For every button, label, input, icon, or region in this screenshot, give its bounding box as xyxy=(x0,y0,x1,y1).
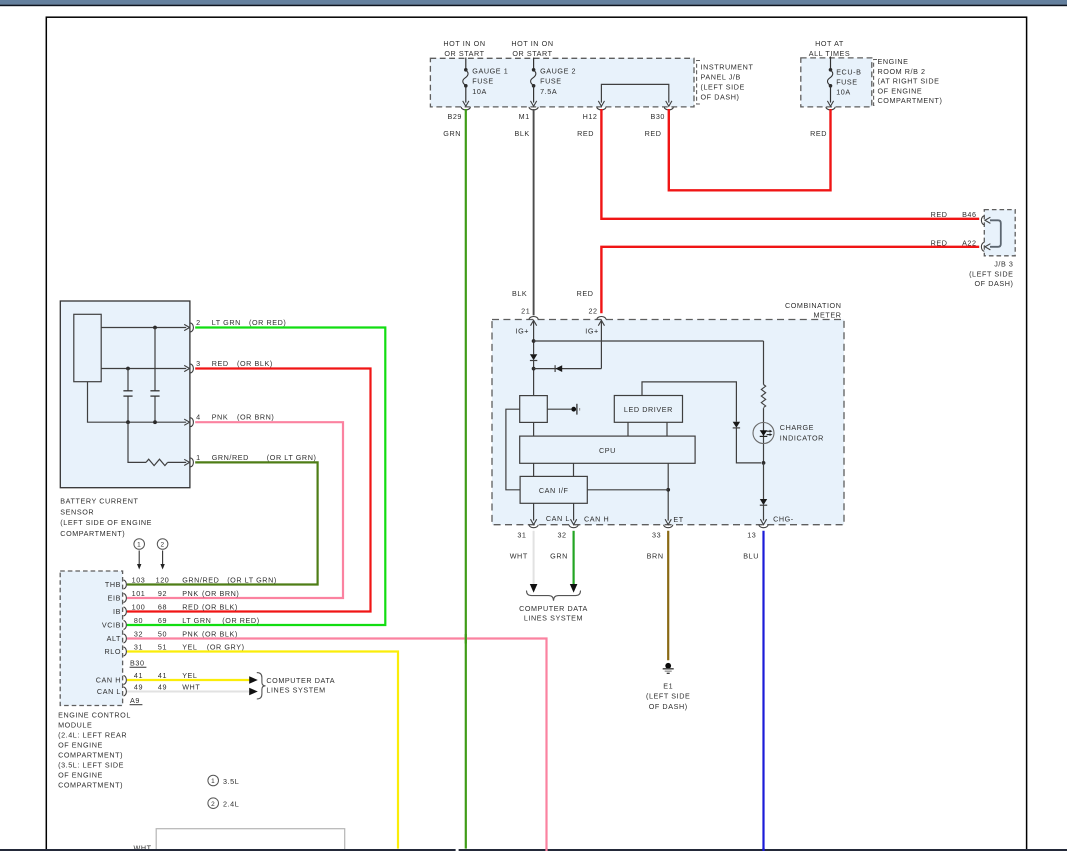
svg-text:VCIB: VCIB xyxy=(102,621,121,630)
pin 32 arrow xyxy=(571,519,577,524)
svg-text:B46: B46 xyxy=(962,210,977,219)
pin 1 arrow xyxy=(184,459,189,465)
svg-text:BLK: BLK xyxy=(514,129,529,138)
svg-text:B29: B29 xyxy=(447,112,462,121)
label BATTERY CURRENT SENSOR (LEFT SIDE OF ENGINE COMPARTMENT) xyxy=(60,497,152,538)
svg-text:OF ENGINE: OF ENGINE xyxy=(58,771,103,780)
svg-text:101: 101 xyxy=(132,589,146,598)
pin 3 arrow xyxy=(184,365,189,371)
wire CPU to CAN I/F 1 xyxy=(533,463,535,476)
svg-text:32: 32 xyxy=(134,629,143,638)
wire B29 GRN (to bottom of page) xyxy=(465,109,467,849)
wire U2 bottom to CPU xyxy=(533,422,535,436)
ECM pin RLO xyxy=(104,642,244,656)
node s1 xyxy=(153,326,157,330)
pin labels B29 M1 H12 B30 xyxy=(447,112,665,121)
label CHARGE INDICATOR xyxy=(780,423,824,442)
pin 2 arc xyxy=(191,323,194,332)
svg-text:IB: IB xyxy=(113,607,121,616)
svg-text:BLK: BLK xyxy=(512,289,527,298)
svg-text:(LEFT SIDE: (LEFT SIDE xyxy=(969,269,1013,278)
svg-text:B30: B30 xyxy=(130,658,145,667)
svg-text:41: 41 xyxy=(134,671,143,680)
junction block: ENGINE ROOM R/B 2 box xyxy=(801,58,872,107)
svg-text:ENGINE: ENGINE xyxy=(878,57,909,66)
svg-text:OR START: OR START xyxy=(512,49,552,58)
svg-text:H12: H12 xyxy=(583,112,598,121)
fuse GAUGE 1 10A xyxy=(464,68,468,72)
internal jumper H12-B30 xyxy=(601,84,668,102)
node terminal dot xyxy=(571,407,576,412)
pin 3 arc xyxy=(191,364,194,373)
wire color labels GRN BLK RED RED xyxy=(443,129,661,138)
terminal bar xyxy=(576,404,578,415)
svg-text:EIB: EIB xyxy=(108,594,121,603)
svg-text:RLO: RLO xyxy=(104,647,121,656)
wire pin22 internal down xyxy=(600,322,602,369)
node junction IG+ top xyxy=(532,339,536,343)
label COMPUTER DATA LINES SYSTEM (meter) xyxy=(519,604,588,623)
svg-text:COMPUTER DATA: COMPUTER DATA xyxy=(519,604,588,613)
svg-text:(LEFT SIDE: (LEFT SIDE xyxy=(701,83,745,92)
COMBINATION METER box xyxy=(492,320,844,525)
pin A22 arc xyxy=(981,242,984,251)
svg-text:METER: METER xyxy=(813,311,841,320)
top window bar xyxy=(0,0,1067,5)
svg-text:49: 49 xyxy=(134,682,143,691)
svg-text:GAUGE 2: GAUGE 2 xyxy=(540,66,576,75)
pin 2 arrow xyxy=(184,324,189,330)
arrow WHT to data lines xyxy=(530,584,538,593)
svg-text:ROOM R/B 2: ROOM R/B 2 xyxy=(878,67,926,76)
svg-text:(OR RED): (OR RED) xyxy=(222,616,259,625)
ECM pin VCIB xyxy=(102,616,260,630)
svg-text:(LEFT SIDE OF ENGINE: (LEFT SIDE OF ENGINE xyxy=(60,518,152,527)
svg-text:ALT: ALT xyxy=(107,634,121,643)
svg-text:OR START: OR START xyxy=(444,49,484,58)
circled 2 above ECM xyxy=(157,539,168,550)
circled 1 above ECM xyxy=(134,539,145,550)
svg-text:3.5L: 3.5L xyxy=(223,777,239,786)
svg-text:RED: RED xyxy=(212,359,229,368)
sensor element block xyxy=(74,314,101,381)
ECM pin CAN L xyxy=(97,682,200,696)
pin 1 arc xyxy=(191,458,194,467)
svg-text:2: 2 xyxy=(211,801,215,808)
wire B29 GRN over ALT crossing xyxy=(465,634,467,644)
svg-text:(2.4L: LEFT REAR: (2.4L: LEFT REAR xyxy=(58,731,127,740)
wire R1 to indicator xyxy=(763,408,765,463)
svg-text:B30: B30 xyxy=(650,112,665,121)
label J/B 3 (LEFT SIDE OF DASH) xyxy=(969,260,1013,288)
wire pin1 GRN/RED to ECM THB xyxy=(127,462,318,584)
svg-text:MODULE: MODULE xyxy=(58,721,92,730)
node s3 xyxy=(126,420,130,424)
label GAUGE 1 FUSE 10A xyxy=(472,66,508,96)
wire node to pin22 diode xyxy=(534,368,602,370)
pin 4 arc xyxy=(191,418,194,427)
ECM pin EIB xyxy=(108,589,240,603)
wire J/B3 A22 RED to meter pin 22 xyxy=(601,247,979,313)
arrow from circled 2 xyxy=(162,551,164,566)
svg-text:OF DASH): OF DASH) xyxy=(649,702,688,711)
svg-text:OF ENGINE: OF ENGINE xyxy=(58,741,103,750)
label HOT AT ALL TIMES xyxy=(809,39,851,58)
wire pin33 BRN to E1 xyxy=(667,531,669,660)
svg-text:CHARGE: CHARGE xyxy=(780,423,814,432)
svg-text:32: 32 xyxy=(557,530,566,539)
wire sensor pin2 internal xyxy=(101,327,186,329)
svg-text:1: 1 xyxy=(211,778,215,785)
svg-text:2: 2 xyxy=(196,318,201,327)
capacitor C2 xyxy=(150,390,159,392)
arrow CAN H to data lines xyxy=(249,676,258,684)
pin 21 arrow xyxy=(531,320,537,325)
svg-text:LT GRN: LT GRN xyxy=(212,318,241,327)
svg-text:WHT: WHT xyxy=(182,682,200,691)
arrow CAN L to data lines xyxy=(249,688,258,696)
svg-text:69: 69 xyxy=(158,616,167,625)
ECU-B output arrow xyxy=(827,101,833,106)
wire pin32 GRN xyxy=(572,531,574,584)
svg-text:2.4L: 2.4L xyxy=(223,800,239,809)
svg-text:J/B 3: J/B 3 xyxy=(994,260,1013,269)
legend circled 1 = 3.5L xyxy=(208,775,219,786)
svg-text:RED: RED xyxy=(931,210,948,219)
wire node to D4 xyxy=(763,463,765,499)
svg-text:GRN: GRN xyxy=(443,129,461,138)
wire LED DRIVER to CPU 2 xyxy=(666,422,668,436)
svg-text:31: 31 xyxy=(134,642,143,651)
svg-text:10A: 10A xyxy=(836,88,851,97)
svg-text:ENGINE CONTROL: ENGINE CONTROL xyxy=(58,711,131,720)
arrow GRN to data lines xyxy=(570,584,578,593)
svg-text:COMPARTMENT): COMPARTMENT) xyxy=(58,751,123,760)
wire U2 right lead xyxy=(547,408,571,410)
svg-text:13: 13 xyxy=(747,530,756,539)
wire CAN I/F to pin 32 xyxy=(573,503,575,520)
wire D3 to charge node xyxy=(736,428,761,463)
pin B30 arc xyxy=(664,107,673,110)
pin B29 arrow xyxy=(463,101,469,106)
svg-text:68: 68 xyxy=(158,602,167,611)
wire to resistor R2 xyxy=(128,422,146,462)
pin 22 arc xyxy=(597,317,606,320)
svg-text:21: 21 xyxy=(521,307,530,316)
label pin 4 PNK (OR BRN) xyxy=(196,413,274,422)
svg-text:(OR RED): (OR RED) xyxy=(249,318,286,327)
label HOT IN ON OR START (fuse GAUGE 2) xyxy=(511,39,553,58)
wire pin2 LT GRN to ECM VCIB xyxy=(127,328,385,626)
pin 4 arrow xyxy=(184,419,189,425)
svg-text:HOT IN ON: HOT IN ON xyxy=(443,39,485,48)
wire sensor pin3 internal xyxy=(101,368,186,370)
pin B46 arc xyxy=(981,216,984,225)
diode D4 down xyxy=(760,499,767,505)
svg-text:WHT: WHT xyxy=(510,551,528,560)
pin 13 arc xyxy=(759,525,768,528)
wire LED DRIVER top feed xyxy=(642,382,736,422)
svg-text:(OR GRY): (OR GRY) xyxy=(207,642,245,651)
pin numbers 31 32 33 13 xyxy=(517,530,756,539)
ECM pin CAN H xyxy=(96,671,198,685)
svg-text:COMPARTMENT): COMPARTMENT) xyxy=(60,529,125,538)
svg-text:THB: THB xyxy=(105,580,121,589)
label pin 3 RED (OR BLK) xyxy=(196,359,273,368)
bottom partial box xyxy=(156,829,345,851)
svg-text:YEL: YEL xyxy=(182,671,197,680)
pin B29 arc xyxy=(461,107,470,110)
svg-text:LINES SYSTEM: LINES SYSTEM xyxy=(266,686,325,695)
junction block: INSTRUMENT PANEL J/B box xyxy=(430,58,694,107)
wire pin3 RED to ECM IB xyxy=(127,369,371,612)
wire ECU-B fuse feed xyxy=(830,57,832,70)
svg-text:(OR BLK): (OR BLK) xyxy=(237,359,273,368)
wire fuse 1 feed xyxy=(465,58,467,70)
svg-text:GRN: GRN xyxy=(550,551,568,560)
svg-text:BRN: BRN xyxy=(647,551,664,560)
pin A22 arrow xyxy=(985,244,990,250)
ENGINE CONTROL MODULE box xyxy=(60,571,122,706)
arrow from circled 1 xyxy=(138,551,140,566)
svg-text:FUSE: FUSE xyxy=(540,77,562,86)
diode D1 down xyxy=(530,354,537,360)
svg-text:INSTRUMENT: INSTRUMENT xyxy=(701,63,754,72)
svg-text:CHG-: CHG- xyxy=(773,514,794,523)
label COMPUTER DATA LINES SYSTEM (ECM) xyxy=(266,676,335,695)
svg-text:LT GRN: LT GRN xyxy=(182,616,211,625)
svg-text:CAN H: CAN H xyxy=(584,514,609,523)
wire H12 RED to J/B3 B46 xyxy=(601,109,979,219)
pin H12 arrow xyxy=(598,101,604,106)
wire U2 left lead to CAN I/F xyxy=(506,409,520,490)
legend circled 2 = 2.4L xyxy=(208,798,219,809)
resistor R2 xyxy=(146,459,168,465)
labels RED A22 xyxy=(931,238,977,247)
resistor R1 xyxy=(761,385,765,408)
svg-text:RED: RED xyxy=(645,129,662,138)
svg-text:CAN L: CAN L xyxy=(97,687,121,696)
ECM pin IB xyxy=(113,602,238,616)
svg-text:50: 50 xyxy=(158,629,167,638)
CHARGE INDICATOR lamp circle xyxy=(753,423,774,444)
svg-text:CPU: CPU xyxy=(599,446,616,455)
labels RED B46 xyxy=(931,210,977,219)
node junction diode mix xyxy=(532,367,536,371)
fuse GAUGE 2 7.5A xyxy=(532,68,536,72)
svg-text:IG+: IG+ xyxy=(516,327,530,336)
svg-text:(AT RIGHT SIDE: (AT RIGHT SIDE xyxy=(878,77,940,86)
wire B30 RED to ECU-B fuse xyxy=(669,109,831,190)
node s4 xyxy=(153,420,157,424)
svg-text:7.5A: 7.5A xyxy=(540,87,557,96)
wire D1 to node xyxy=(533,361,535,396)
wire fuse 2 output xyxy=(533,86,535,103)
svg-text:A9: A9 xyxy=(130,696,140,705)
label INSTRUMENT PANEL J/B (LEFT SIDE OF DASH) xyxy=(701,63,754,102)
svg-text:LINES SYSTEM: LINES SYSTEM xyxy=(524,614,583,623)
svg-text:1: 1 xyxy=(196,453,201,462)
svg-text:FUSE: FUSE xyxy=(472,77,494,86)
svg-text:CAN L: CAN L xyxy=(546,514,570,523)
label ENGINE CONTROL MODULE location xyxy=(58,711,131,790)
pin M1 arrow xyxy=(531,101,537,106)
svg-text:3: 3 xyxy=(196,359,201,368)
svg-text:(3.5L: LEFT SIDE: (3.5L: LEFT SIDE xyxy=(58,761,124,770)
svg-text:E1: E1 xyxy=(663,681,673,690)
svg-text:PNK: PNK xyxy=(212,413,229,422)
svg-text:(LEFT SIDE: (LEFT SIDE xyxy=(646,692,690,701)
fuse ECU-B 10A xyxy=(829,68,833,72)
pin 33 arrow xyxy=(665,519,671,524)
CPU box xyxy=(520,436,695,463)
svg-text:RED: RED xyxy=(577,289,594,298)
pin 21 arc xyxy=(529,317,538,320)
svg-text:GAUGE 1: GAUGE 1 xyxy=(472,66,508,75)
svg-text:2: 2 xyxy=(161,542,165,549)
regulator block U2 xyxy=(520,396,548,423)
svg-text:IG+: IG+ xyxy=(585,327,599,336)
svg-text:PNK: PNK xyxy=(182,629,199,638)
svg-text:22: 22 xyxy=(588,307,597,316)
label ECU-B FUSE 10A xyxy=(836,67,861,96)
capacitor C1 xyxy=(123,390,132,392)
svg-text:92: 92 xyxy=(158,589,167,598)
svg-text:(OR LT GRN): (OR LT GRN) xyxy=(267,453,317,462)
svg-text:RED: RED xyxy=(931,238,948,247)
svg-text:BLU: BLU xyxy=(743,551,759,560)
svg-text:41: 41 xyxy=(158,671,167,680)
svg-text:HOT IN ON: HOT IN ON xyxy=(511,39,553,48)
wire ALT PNK to page bottom xyxy=(127,639,547,851)
BATTERY CURRENT SENSOR box xyxy=(60,301,190,488)
svg-text:4: 4 xyxy=(196,413,201,422)
pin CHG- arrow xyxy=(760,519,766,524)
diode D2 left xyxy=(555,365,562,372)
label E1 (LEFT SIDE OF DASH) xyxy=(646,681,690,711)
svg-text:120: 120 xyxy=(156,575,170,584)
wire RLO YEL to page bottom xyxy=(127,652,398,849)
ground E1 symbol xyxy=(665,663,671,669)
wire pin31 WHT xyxy=(533,531,535,584)
diode D3 down xyxy=(733,422,740,428)
wire CPU to pin 33 ET xyxy=(667,463,669,520)
svg-text:A22: A22 xyxy=(962,238,977,247)
wire BLU over bottom bar xyxy=(762,848,764,851)
wire ECU-B fuse output xyxy=(830,86,832,103)
LED symbol in lamp xyxy=(760,430,768,436)
wire M1 BLK to meter pin 21 xyxy=(533,109,535,315)
pin B30 arrow xyxy=(666,101,672,106)
svg-text:51: 51 xyxy=(158,642,167,651)
brace computer data lines (ECM) xyxy=(257,673,266,699)
svg-text:SENSOR: SENSOR xyxy=(60,507,94,516)
svg-text:33: 33 xyxy=(652,530,661,539)
pin 31 arrow xyxy=(531,519,537,524)
ECM pin THB xyxy=(105,575,277,589)
label pin 1 GRN/RED (OR LT GRN) xyxy=(196,453,316,462)
wire ALT PNK over bottom bar xyxy=(545,848,547,851)
capacitor C1 leads xyxy=(127,369,129,391)
label ENGINE ROOM R/B 2 (AT RIGHT SIDE OF ENGINE COMPARTMENT) xyxy=(878,57,943,105)
label COMBINATION METER xyxy=(785,301,842,320)
pin M1 arc xyxy=(529,107,538,110)
underbrace computer data lines xyxy=(527,591,581,601)
label HOT IN ON OR START (fuse GAUGE 1) xyxy=(443,39,485,58)
LED DRIVER box xyxy=(614,396,682,423)
svg-text:(OR BRN): (OR BRN) xyxy=(237,413,274,422)
wire CAN I/F to pin 31 xyxy=(533,503,535,520)
capacitor C2 leads xyxy=(154,328,156,391)
svg-text:ECU-B: ECU-B xyxy=(836,67,861,76)
svg-text:80: 80 xyxy=(134,616,143,625)
svg-text:(OR LT GRN): (OR LT GRN) xyxy=(227,575,277,584)
label pin 2 LT GRN (OR RED) xyxy=(196,318,286,327)
svg-text:COMBINATION: COMBINATION xyxy=(785,301,842,310)
wire sensor pin4 internal xyxy=(88,382,187,423)
wire CAN L WHT xyxy=(127,691,250,693)
pin 22 arrow xyxy=(598,320,604,325)
internal jumper B46-A22 xyxy=(990,220,1001,247)
svg-text:OF DASH): OF DASH) xyxy=(975,279,1014,288)
svg-text:FUSE: FUSE xyxy=(836,77,858,86)
svg-text:GRN/RED: GRN/RED xyxy=(212,453,249,462)
bracket for ENGINE ROOM R/B 2 name xyxy=(874,60,877,106)
ECU-B output arc xyxy=(826,107,835,110)
pin 33 arc xyxy=(664,525,673,528)
label GAUGE 2 FUSE 7.5A xyxy=(540,66,576,96)
svg-text:YEL: YEL xyxy=(182,642,197,651)
ECM pin ALT xyxy=(107,629,238,643)
wire pin21 internal down xyxy=(533,322,535,355)
bottom window bar xyxy=(0,849,1067,851)
svg-text:1: 1 xyxy=(137,542,141,549)
wire fuse 1 output xyxy=(465,86,467,103)
wire D4 to pin 13 xyxy=(763,506,765,521)
CAN I/F box xyxy=(520,476,587,503)
wire R1 top xyxy=(763,341,765,385)
svg-text:COMPARTMENT): COMPARTMENT) xyxy=(878,96,943,105)
svg-text:COMPARTMENT): COMPARTMENT) xyxy=(58,781,123,790)
svg-text:LED DRIVER: LED DRIVER xyxy=(624,405,673,414)
svg-text:HOT AT: HOT AT xyxy=(815,39,844,48)
svg-text:ET: ET xyxy=(673,515,683,524)
svg-text:RED: RED xyxy=(182,602,199,611)
node ET junction xyxy=(666,488,670,492)
node s2 xyxy=(126,367,130,371)
wire labels WHT GRN BRN BLU xyxy=(510,551,759,560)
wire pin13 BLU to bottom xyxy=(762,531,764,851)
pin H12 arc xyxy=(597,107,606,110)
svg-text:10A: 10A xyxy=(472,87,487,96)
svg-text:OF ENGINE: OF ENGINE xyxy=(878,86,923,95)
svg-text:CAN H: CAN H xyxy=(96,676,121,685)
wire IG+ rail to resistor xyxy=(534,340,764,342)
svg-text:(OR BRN): (OR BRN) xyxy=(202,589,239,598)
svg-text:COMPUTER DATA: COMPUTER DATA xyxy=(266,676,335,685)
pin 31 arc xyxy=(529,525,538,528)
pin B46 arrow xyxy=(985,217,990,223)
svg-text:31: 31 xyxy=(517,530,526,539)
svg-text:49: 49 xyxy=(158,682,167,691)
wire pin4 PNK to ECM EIB xyxy=(127,422,343,598)
wire CPU to CAN I/F 2 xyxy=(573,463,575,476)
bracket for INSTRUMENT PANEL name xyxy=(697,61,700,105)
wire LED DRIVER to CPU 1 xyxy=(627,422,629,436)
svg-text:OF DASH): OF DASH) xyxy=(701,93,740,102)
svg-text:CAN I/F: CAN I/F xyxy=(539,486,569,495)
svg-text:100: 100 xyxy=(132,602,146,611)
